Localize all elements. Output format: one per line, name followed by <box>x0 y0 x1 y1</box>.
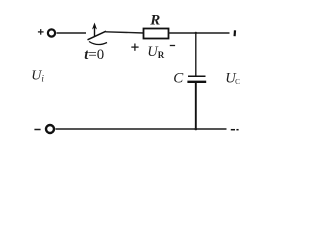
capacitor C top plate <box>188 75 206 77</box>
plus sign left of UR <box>131 44 138 51</box>
wire capacitor down to bottom rail <box>195 83 197 129</box>
minus sign at bottom-left terminal <box>34 129 40 131</box>
plus sign at top-left input terminal <box>38 29 44 35</box>
wire resistor to right <box>169 32 230 34</box>
switch arrow shaft <box>94 26 96 37</box>
wire switch to resistor <box>106 32 144 33</box>
capacitor C bottom plate <box>187 81 206 83</box>
bottom rail wire <box>56 128 227 130</box>
minus sign right of UR <box>170 45 175 47</box>
bottom-right terminal dash <box>231 129 235 131</box>
svg-text:Ui: Ui <box>31 68 44 83</box>
input terminal bottom-left <box>46 125 54 133</box>
svg-text:C: C <box>173 71 184 87</box>
input terminal top-left <box>48 29 55 36</box>
svg-text:t=0: t=0 <box>84 47 104 63</box>
svg-text:UR: UR <box>147 44 164 60</box>
svg-text:R: R <box>149 13 160 29</box>
wire node down to capacitor <box>195 33 197 76</box>
resistor R body <box>144 29 169 39</box>
node junction bottom <box>195 128 198 131</box>
output terminal tick top-right <box>234 30 237 36</box>
switch arrowhead <box>92 23 97 30</box>
wire terminal to switch <box>57 32 87 34</box>
svg-text:UC: UC <box>225 71 240 87</box>
bottom-right terminal dot <box>236 129 238 131</box>
switch blade <box>88 31 107 40</box>
node junction top <box>195 32 197 34</box>
switch motion arc <box>89 42 107 45</box>
